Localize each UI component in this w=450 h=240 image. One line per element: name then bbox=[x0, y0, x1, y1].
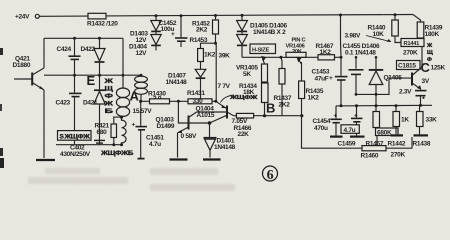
transistor Q1405 C1815 bbox=[384, 61, 423, 90]
diode D421 bbox=[83, 75, 106, 145]
wire Q1403 collector to Q1404 bbox=[197, 111, 227, 113]
node yoke bottom bbox=[122, 115, 124, 118]
terminal circle +24V bbox=[35, 14, 39, 18]
resistor R1467 1K2 bbox=[316, 43, 335, 60]
capacitor C1456 emitter bbox=[415, 91, 427, 106]
wire Q421 emitter down bbox=[43, 90, 45, 158]
capacitor C424 bbox=[57, 38, 81, 75]
wire 39K branch bbox=[216, 43, 230, 101]
node dot D1401 anode bbox=[208, 121, 212, 125]
wire top rail bbox=[106, 15, 413, 16]
scan bleed-through smudges bbox=[28, 168, 235, 191]
diode D1407 1N4148 bbox=[166, 62, 206, 99]
coil H deflection yoke bbox=[116, 88, 129, 116]
diode D422 bbox=[81, 38, 106, 75]
resistor R1452 2K2 bbox=[192, 16, 219, 45]
wire Q1405 base net bbox=[356, 78, 411, 94]
wire R1430 to R1431 bbox=[170, 100, 189, 102]
resistor R1460 270K bbox=[361, 146, 406, 160]
wire A to R1430 bbox=[141, 100, 150, 102]
wire base drop Q1403 bbox=[178, 101, 187, 123]
resistor R1435 1K2 bbox=[299, 62, 324, 116]
wire box top edge bbox=[44, 37, 123, 39]
wire R1441 right to Q1405 collector bbox=[421, 47, 423, 67]
wire H-SIZE bus bbox=[242, 56, 341, 58]
potentiometer VR1405 5K bbox=[236, 56, 268, 82]
wire Q1404 to R1466 bbox=[228, 113, 236, 116]
scan edge artifacts bbox=[0, 48, 3, 55]
zener D1403 12V bbox=[130, 16, 161, 44]
wire Q1403 base node bbox=[188, 122, 210, 124]
resistor R1441 270K bbox=[401, 39, 424, 57]
badge circled 6 bbox=[263, 166, 278, 183]
paper grain bbox=[0, 0, 1, 1]
transistor Q421 D1880 bbox=[13, 56, 45, 91]
zener D1404 12V bbox=[129, 31, 161, 57]
annotation arc to Q1404 bbox=[221, 95, 235, 103]
box H-SIZE bbox=[250, 44, 276, 54]
coil linearity L with R421 bbox=[122, 117, 127, 145]
diode D1405 bbox=[237, 15, 288, 35]
wire node E rail bbox=[44, 74, 141, 76]
wire box right edge bbox=[122, 38, 124, 88]
wire R1431 to Q1404 bbox=[212, 100, 216, 102]
resistor R1430 3.9 bbox=[148, 90, 170, 104]
wire bottom rail right bbox=[386, 137, 412, 148]
transistor Q1403 D1499 bbox=[156, 112, 197, 133]
ground bar Q1403 bbox=[170, 158, 188, 160]
ground bar Q421 emitter bbox=[36, 159, 55, 161]
diode D1406 bbox=[237, 31, 248, 57]
resistor R1431 330 bbox=[187, 90, 212, 105]
wire top rail drop to H-SIZE bus bbox=[340, 15, 343, 57]
resistor R421 680 bbox=[95, 117, 122, 146]
diode D1401 1N4148 bbox=[204, 123, 236, 158]
capacitor C402 plates bbox=[94, 139, 105, 141]
resistor R1466 22K bbox=[232, 113, 254, 137]
wire top rail left bbox=[39, 15, 88, 17]
capacitor C1459 4.7u bbox=[338, 106, 365, 148]
resistor R1457 680K bbox=[366, 106, 399, 148]
resistor R1439 180K bbox=[413, 15, 443, 39]
wire right ground rail bbox=[336, 104, 432, 107]
coil linearity top at A bbox=[135, 76, 148, 94]
capacitor C423 bbox=[56, 75, 82, 145]
wire R1435 down to bottom rail bbox=[302, 116, 363, 149]
node dots on top rail bbox=[155, 14, 158, 17]
resistor R1442 1K bbox=[388, 106, 410, 148]
resistor R1440 10K bbox=[368, 15, 402, 43]
resistor R1453 1K2 bbox=[190, 37, 216, 62]
capacitor C1455 0.1 bbox=[349, 57, 364, 94]
capacitor C1454 470u bbox=[313, 106, 343, 137]
wire Q421 collector up to box corner bbox=[43, 38, 45, 68]
wire Q1403 emitter to ground bbox=[177, 133, 179, 158]
node dots box top bbox=[73, 37, 76, 40]
label S correction capacitor boxed bbox=[58, 131, 92, 141]
potentiometer VR1406 20K bbox=[286, 43, 307, 64]
capacitor C1451 4.7u bbox=[132, 101, 165, 158]
capacitor C1453 47uF bbox=[312, 56, 348, 106]
resistor R1438 33K bbox=[413, 106, 438, 148]
wire node B rail bbox=[254, 115, 302, 117]
wire bottom left rail bbox=[56, 144, 123, 146]
ground bar D1401 bbox=[203, 158, 221, 160]
transistor Q1404 A1015 bbox=[196, 101, 228, 123]
capacitor C1452 100u bbox=[159, 16, 188, 47]
resistor R1432 bbox=[88, 13, 106, 19]
diode D1408 bbox=[369, 57, 383, 105]
resistor R1437 2K2 bbox=[274, 57, 292, 115]
resistor R1434 18K bbox=[239, 83, 268, 116]
